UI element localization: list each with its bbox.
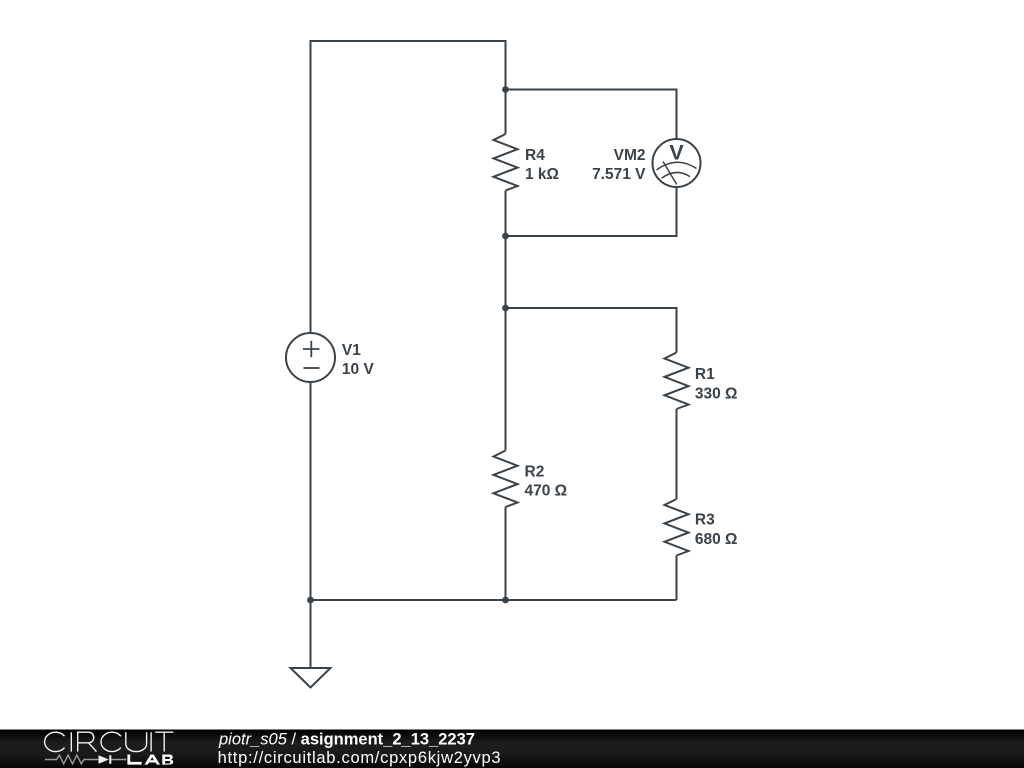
voltage source V1 circle xyxy=(286,333,335,382)
V1 plus sign xyxy=(303,341,320,368)
logo diode xyxy=(99,755,109,764)
svg-text:10 V: 10 V xyxy=(342,361,375,378)
svg-text:680 Ω: 680 Ω xyxy=(695,531,738,548)
node junction dot (VM branch bottom) xyxy=(502,233,509,240)
resistor R4 zigzag xyxy=(494,134,518,191)
wire voltmeter branch bottom xyxy=(506,187,677,236)
footer bar xyxy=(0,730,1024,768)
svg-text:http://circuitlab.com/cpxp6kjw: http://circuitlab.com/cpxp6kjw2yvp3 xyxy=(218,749,501,767)
node junction dot top (VM branch) xyxy=(502,86,509,93)
wire R1 to R3 xyxy=(676,409,678,499)
svg-text:R3: R3 xyxy=(695,512,715,529)
node junction dot (R branch top) xyxy=(502,305,509,312)
svg-text:VM2: VM2 xyxy=(614,147,646,164)
voltmeter VM2 face arcs xyxy=(657,162,697,185)
node junction dot (bottom left) xyxy=(307,597,314,604)
wire bottom horizontal xyxy=(311,599,677,601)
svg-text:piotr_s05 / asignment_2_13_223: piotr_s05 / asignment_2_13_2237 xyxy=(218,730,475,748)
wire voltmeter branch top xyxy=(506,90,677,140)
ground stem xyxy=(310,600,312,668)
voltmeter VM2 needle xyxy=(663,162,677,185)
wire R3 to bottom rail xyxy=(676,556,678,601)
wire left vertical lower (V1 to bottom rail) xyxy=(310,383,312,601)
svg-text:V1: V1 xyxy=(342,342,361,359)
resistor R1 zigzag xyxy=(665,353,689,410)
svg-text:330 Ω: 330 Ω xyxy=(695,386,738,403)
logo CIRCUIT letters xyxy=(45,732,174,751)
svg-text:R2: R2 xyxy=(525,464,545,481)
svg-text:V: V xyxy=(669,141,684,165)
svg-text:7.571 V: 7.571 V xyxy=(592,166,646,183)
wire left vertical upper (top rail to V1) xyxy=(310,40,312,333)
svg-text:R4: R4 xyxy=(525,147,545,164)
wire middle vertical segment A (top rail to R4) xyxy=(505,40,507,134)
logo LAB xyxy=(127,755,173,765)
resistor R3 zigzag xyxy=(665,499,689,556)
svg-text:470 Ω: 470 Ω xyxy=(525,482,568,499)
node junction dot (bottom middle) xyxy=(502,597,509,604)
svg-text:1 kΩ: 1 kΩ xyxy=(525,166,559,183)
wire middle vertical segment B (R4 to R2) xyxy=(505,191,507,451)
V1 minus sign xyxy=(304,367,320,369)
ground triangle xyxy=(291,668,331,688)
wire R1R3 branch top xyxy=(506,308,677,353)
logo resistor-diode wire xyxy=(45,755,127,764)
voltmeter VM2 circle xyxy=(653,139,701,187)
wire middle vertical segment C (R2 to bottom rail) xyxy=(505,507,507,600)
resistor R2 zigzag xyxy=(494,451,518,508)
wire top horizontal xyxy=(311,40,506,42)
svg-text:R1: R1 xyxy=(695,366,715,383)
